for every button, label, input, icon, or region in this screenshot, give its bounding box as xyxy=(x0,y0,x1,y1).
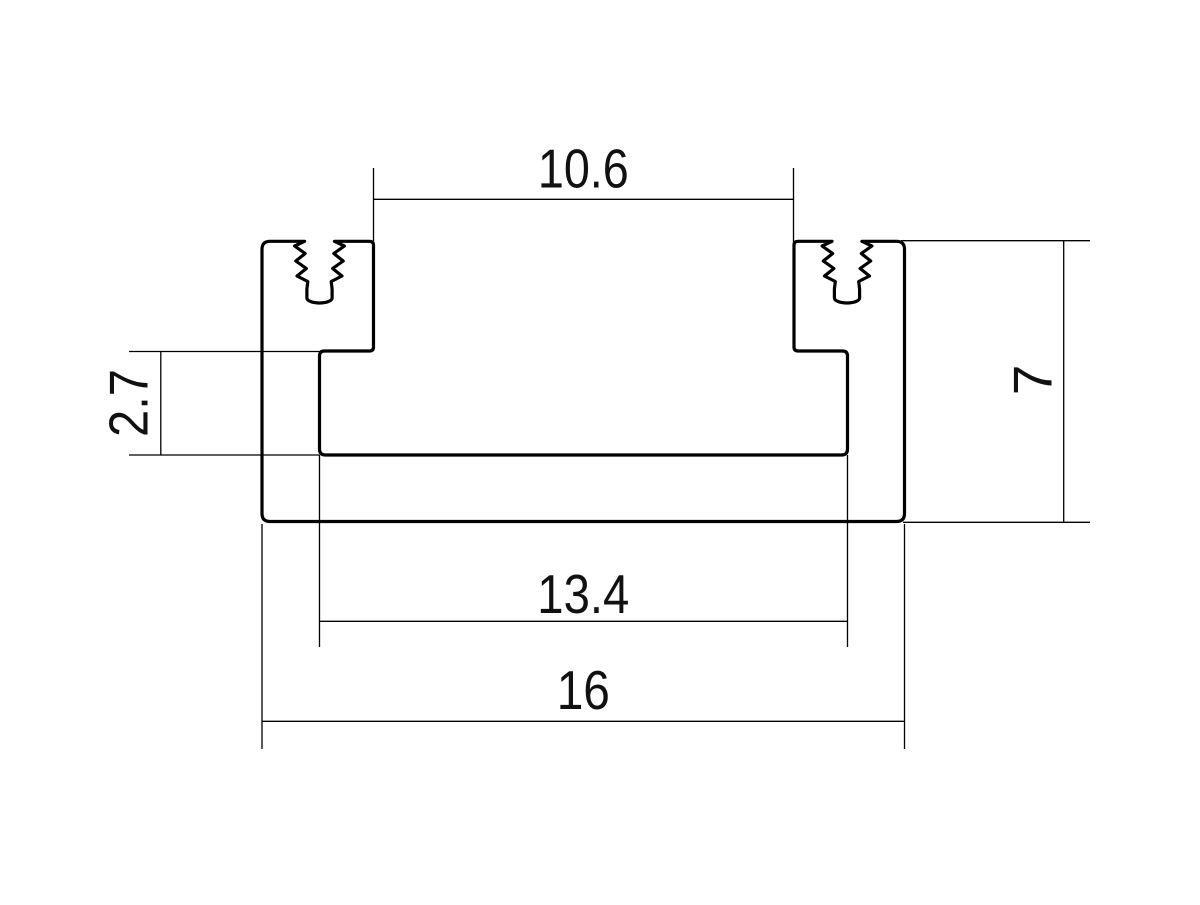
svg-text:2.7: 2.7 xyxy=(99,369,160,437)
svg-text:7: 7 xyxy=(1002,365,1064,396)
dimension 7: extension and dimension lines (overall height, right) xyxy=(901,241,1090,523)
dimension 2.7: extension and dimension lines (lip height, left) xyxy=(129,352,328,456)
svg-text:13.4: 13.4 xyxy=(537,564,629,625)
dimension 10.6: extension and dimension lines (top opening width) xyxy=(374,168,794,244)
svg-text:16: 16 xyxy=(557,659,610,721)
dimension 16: extension and dimension lines (overall width) xyxy=(262,524,905,749)
dimension 13.4: extension and dimension lines (inner cavity width) xyxy=(320,455,848,647)
aluminium LED-profile cross-section outline with two serrated screw slots xyxy=(262,241,905,521)
svg-text:10.6: 10.6 xyxy=(538,138,629,199)
